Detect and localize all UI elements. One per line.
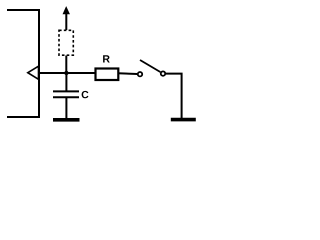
pull-up resistor (dashed, internal) [59,30,73,55]
resistor R (box) [96,69,119,81]
wire: switch to right ground [166,74,182,119]
capacitor C top plate [53,90,79,92]
switch S1 right contact [161,71,165,75]
input pin arrowhead (triangle pointing left) [28,66,39,79]
ground (right) [171,118,196,122]
wire: node up to pull-up resistor [65,56,67,74]
label C [82,91,89,98]
ground (left, under capacitor) [53,118,80,122]
capacitor C bottom plate [53,96,79,98]
wire: resistor R to switch [118,72,137,75]
IC boundary bracket U1 [7,10,39,117]
wire: pin to resistor R [39,72,95,74]
wire: capacitor to ground [65,97,67,119]
node junction dot [64,71,68,75]
supply arrow (VCC, filled arrowhead up) [63,7,70,14]
switch S1 lever (open) [140,60,160,72]
label R [103,55,110,62]
wire: pull-up resistor to supply arrow [65,13,67,30]
wire: node down to capacitor C [65,73,67,91]
switch S1 left contact [138,72,142,76]
